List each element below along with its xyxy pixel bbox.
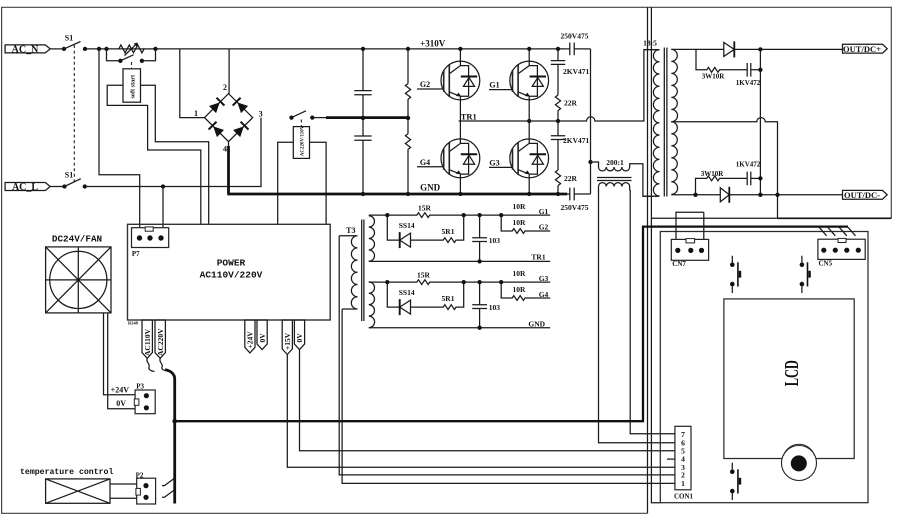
svg-text:GND: GND bbox=[528, 320, 545, 329]
svg-text:3: 3 bbox=[259, 109, 263, 118]
svg-text:DC24V/FAN: DC24V/FAN bbox=[52, 233, 102, 244]
svg-text:OUT/DC+: OUT/DC+ bbox=[843, 44, 881, 54]
svg-text:G1: G1 bbox=[539, 207, 549, 216]
svg-text:AC220V/110V: AC220V/110V bbox=[301, 125, 306, 156]
svg-text:+24V: +24V bbox=[246, 331, 255, 349]
svg-text:CN5: CN5 bbox=[819, 260, 833, 268]
svg-text:250V475: 250V475 bbox=[561, 32, 589, 41]
svg-text:3W10R: 3W10R bbox=[702, 72, 726, 80]
svg-text:SS14: SS14 bbox=[399, 288, 415, 297]
svg-text:4: 4 bbox=[223, 145, 227, 154]
svg-text:+24V: +24V bbox=[111, 385, 130, 394]
svg-text:S1: S1 bbox=[65, 33, 73, 42]
svg-text:10R: 10R bbox=[512, 269, 526, 278]
svg-text:1: 1 bbox=[681, 479, 685, 488]
svg-text:temperature control: temperature control bbox=[20, 467, 113, 477]
svg-text:10R: 10R bbox=[512, 218, 526, 227]
svg-text:103: 103 bbox=[489, 303, 501, 312]
svg-text:P7: P7 bbox=[132, 250, 140, 258]
svg-text:SS14: SS14 bbox=[399, 221, 415, 230]
svg-text:2: 2 bbox=[223, 83, 227, 92]
svg-text:5R1: 5R1 bbox=[442, 227, 455, 236]
svg-text:103: 103 bbox=[489, 236, 501, 245]
svg-text:22R: 22R bbox=[564, 98, 578, 107]
svg-text:2KV471: 2KV471 bbox=[563, 67, 590, 76]
svg-text:18:5: 18:5 bbox=[643, 38, 657, 47]
svg-text:15R: 15R bbox=[417, 270, 431, 279]
svg-text:G4: G4 bbox=[539, 290, 549, 299]
svg-text:200:1: 200:1 bbox=[606, 158, 624, 167]
svg-text:P2: P2 bbox=[136, 471, 144, 479]
svg-text:R348: R348 bbox=[128, 321, 139, 326]
svg-text:AC_N: AC_N bbox=[12, 44, 39, 55]
svg-text:250V475: 250V475 bbox=[561, 203, 589, 212]
svg-text:3W10R: 3W10R bbox=[701, 170, 725, 178]
svg-text:OUT/DC-: OUT/DC- bbox=[844, 190, 880, 200]
svg-text:AC_L: AC_L bbox=[12, 182, 38, 193]
svg-text:10R: 10R bbox=[512, 285, 526, 294]
svg-text:G1: G1 bbox=[489, 80, 499, 89]
svg-text:1KV472: 1KV472 bbox=[736, 160, 761, 168]
svg-text:CN7: CN7 bbox=[672, 260, 686, 268]
svg-text:T3: T3 bbox=[346, 226, 355, 235]
svg-text:soft start: soft start bbox=[130, 74, 137, 98]
svg-text:GND: GND bbox=[420, 182, 441, 192]
svg-text:2KV471: 2KV471 bbox=[563, 136, 590, 145]
svg-text:G2: G2 bbox=[420, 80, 430, 89]
svg-text:P3: P3 bbox=[136, 383, 144, 391]
svg-text:G3: G3 bbox=[489, 158, 499, 167]
svg-text:CON1: CON1 bbox=[674, 492, 694, 500]
svg-text:0V: 0V bbox=[295, 333, 304, 343]
svg-text:G2: G2 bbox=[539, 223, 549, 232]
svg-text:TR1: TR1 bbox=[531, 253, 545, 262]
svg-text:LCD: LCD bbox=[780, 360, 803, 386]
svg-text:+15V: +15V bbox=[283, 332, 292, 350]
svg-text:1: 1 bbox=[194, 109, 198, 118]
svg-text:0V: 0V bbox=[258, 333, 267, 343]
svg-text:+310V: +310V bbox=[420, 38, 446, 48]
svg-text:G3: G3 bbox=[539, 274, 549, 283]
svg-text:G4: G4 bbox=[420, 158, 430, 167]
svg-text:22R: 22R bbox=[564, 174, 578, 183]
svg-text:AC110V/220V: AC110V/220V bbox=[200, 270, 263, 281]
svg-text:AC110V: AC110V bbox=[143, 328, 152, 356]
svg-text:1KV472: 1KV472 bbox=[736, 79, 761, 87]
svg-text:15R: 15R bbox=[418, 203, 432, 212]
svg-text:0V: 0V bbox=[116, 399, 126, 408]
svg-text:S1: S1 bbox=[65, 171, 73, 180]
svg-text:POWER: POWER bbox=[217, 257, 246, 268]
svg-text:5R1: 5R1 bbox=[442, 294, 455, 303]
svg-text:AC220V: AC220V bbox=[156, 328, 165, 356]
svg-text:10R: 10R bbox=[512, 202, 526, 211]
svg-text:TR1: TR1 bbox=[461, 111, 477, 121]
